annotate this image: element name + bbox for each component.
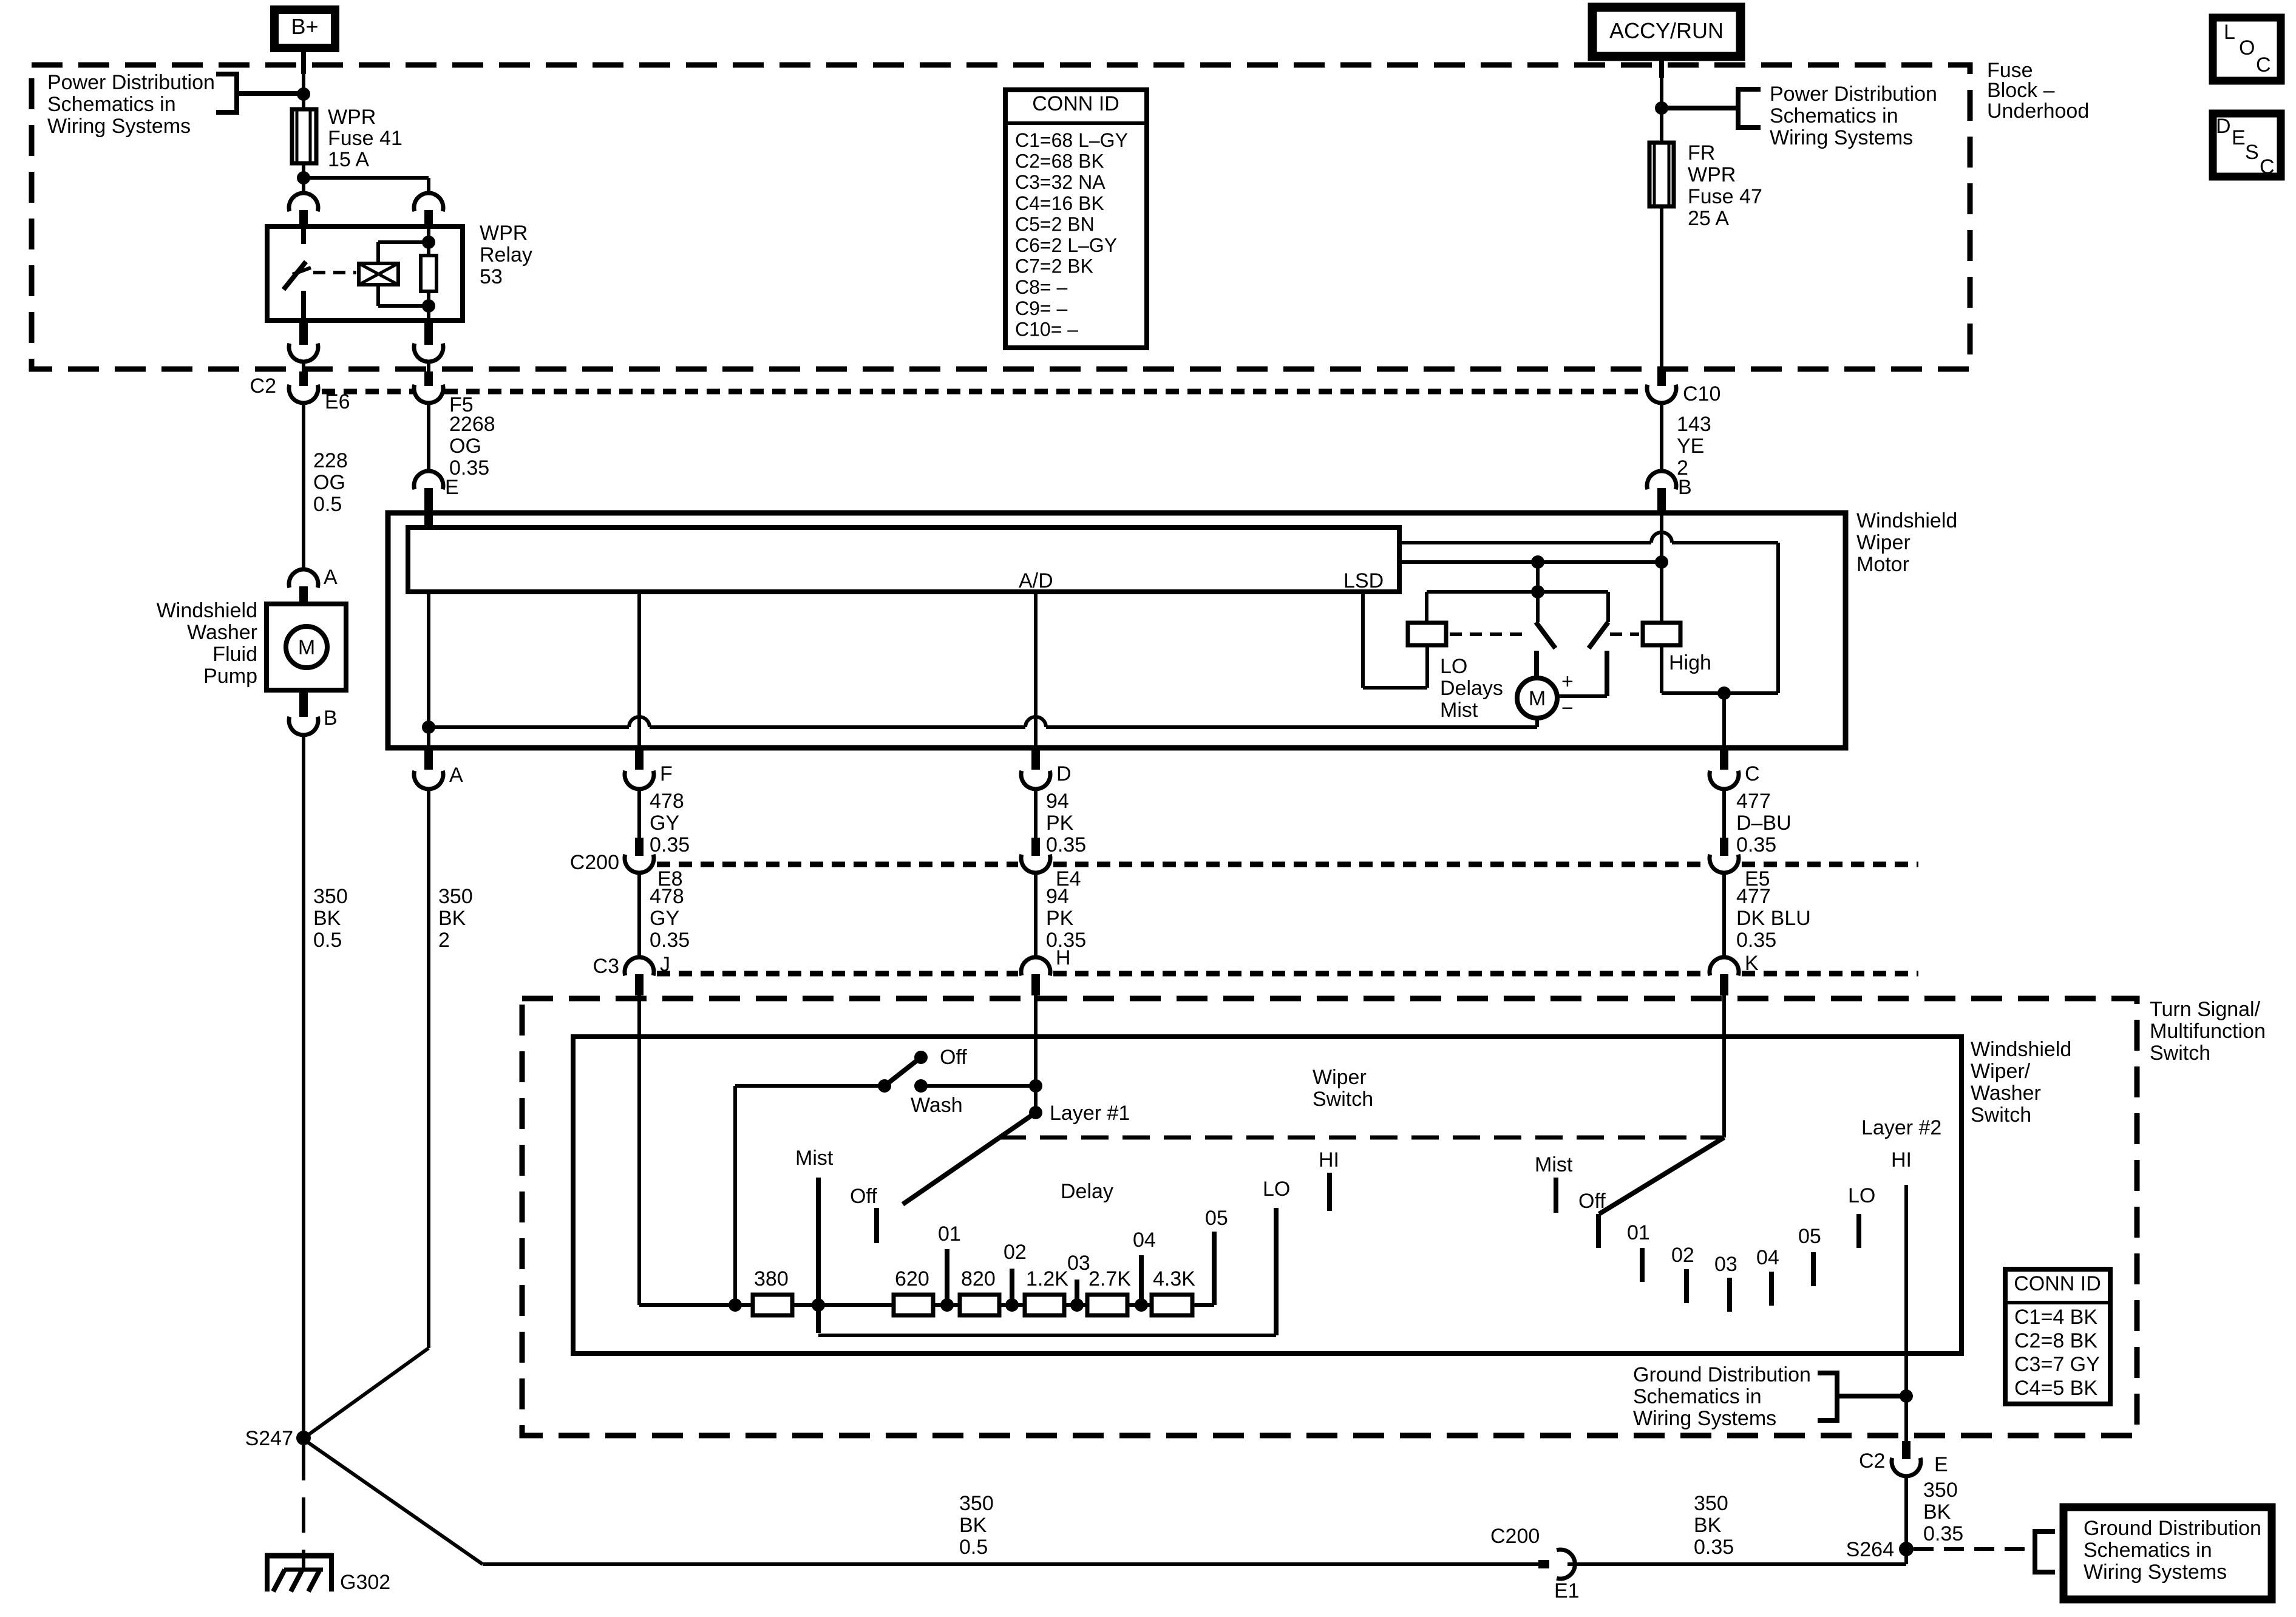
svg-text:E1: E1: [1554, 1579, 1580, 1602]
wire K into switch: [1722, 995, 1726, 1137]
svg-text:GY: GY: [650, 812, 679, 835]
svg-text:0.35: 0.35: [1046, 833, 1086, 856]
svg-text:Pump: Pump: [203, 665, 257, 688]
wire1 bar to high-box right side (hops B wire): [1399, 541, 1651, 544]
svg-text:S247: S247: [245, 1427, 293, 1450]
mechanical dashed link motor relays: [1450, 632, 1527, 636]
connector C2 pin F5: [424, 371, 433, 386]
wiper switch layer2 blade: [1599, 1137, 1724, 1214]
wire dashed S264 to ground distribution: [1914, 1547, 2031, 1551]
svg-text:BK: BK: [959, 1514, 987, 1537]
svg-text:D: D: [2216, 115, 2231, 138]
resistor 1.2K: [1025, 1295, 1064, 1315]
wire fuse41 to relay entry + branch to F5 side: [302, 163, 305, 193]
svg-text:BK: BK: [1694, 1514, 1722, 1537]
connector motor pin F: [635, 748, 644, 770]
turn signal multifunction switch dashed box: [522, 998, 2137, 1436]
svg-text:+: +: [1561, 670, 1574, 693]
wire D inside motor: [1034, 592, 1038, 748]
node wash junction on H wire: [1029, 1079, 1042, 1093]
svg-text:01: 01: [1627, 1221, 1650, 1244]
connector motor pin C: [1720, 748, 1728, 770]
callout power distribution schematics (right): [1662, 106, 1737, 110]
svg-text:0.5: 0.5: [313, 493, 342, 516]
svg-text:S264: S264: [1846, 1538, 1894, 1561]
svg-text:2: 2: [438, 929, 450, 952]
connector pump pin A: [302, 403, 305, 569]
svg-text:350: 350: [313, 885, 348, 908]
svg-text:C6=2 L–GY: C6=2 L–GY: [1015, 234, 1117, 256]
resistor 4.3K: [1152, 1295, 1192, 1315]
svg-text:BK: BK: [438, 907, 466, 930]
svg-text:M: M: [298, 636, 315, 659]
svg-text:Layer #1: Layer #1: [1050, 1102, 1130, 1125]
power feed ACCY/RUN: [1592, 7, 1741, 56]
svg-text:Wiper: Wiper: [1313, 1066, 1367, 1089]
connector C10: [1657, 368, 1666, 386]
svg-text:C2: C2: [1859, 1449, 1885, 1473]
svg-text:Delay: Delay: [1061, 1180, 1113, 1203]
svg-text:Ground Distribution: Ground Distribution: [1633, 1363, 1811, 1386]
windshield wiper washer switch box: [573, 1037, 1961, 1354]
svg-text:Block –: Block –: [1987, 79, 2055, 102]
svg-text:A: A: [324, 566, 338, 589]
ground G302: [265, 1553, 333, 1559]
svg-text:C3=7 GY: C3=7 GY: [2014, 1353, 2100, 1376]
svg-text:A: A: [449, 764, 463, 787]
node S264 splice: [1904, 1549, 1908, 1564]
connector C3 pin J: [625, 957, 654, 975]
washer switch Off contact: [914, 1051, 928, 1064]
wire mist to LO return: [818, 1334, 1276, 1337]
svg-text:C2=8 BK: C2=8 BK: [2014, 1329, 2097, 1352]
svg-text:0.35: 0.35: [449, 456, 489, 480]
connector relay socket exit pin 1: [299, 320, 308, 345]
svg-text:Off: Off: [850, 1185, 877, 1208]
svg-text:O: O: [2239, 36, 2255, 59]
svg-text:Fuse 41: Fuse 41: [328, 127, 402, 150]
connector relay socket entry pin 1: [289, 193, 318, 211]
svg-text:620: 620: [895, 1267, 929, 1290]
svg-text:Mist: Mist: [1440, 699, 1478, 722]
svg-text:03: 03: [1067, 1252, 1090, 1275]
fuse F41 WPR 15A: [292, 109, 316, 163]
svg-text:LO: LO: [1848, 1184, 1875, 1207]
svg-text:94: 94: [1046, 790, 1069, 813]
fuse F47 FR WPR 25A: [1649, 143, 1674, 206]
svg-text:C5=2 BN: C5=2 BN: [1015, 213, 1095, 235]
svg-text:Fluid: Fluid: [212, 643, 257, 666]
svg-text:FR: FR: [1688, 141, 1715, 164]
svg-text:Multifunction: Multifunction: [2150, 1020, 2266, 1043]
svg-text:Off: Off: [940, 1046, 967, 1069]
contact stubs to motor M: [1534, 651, 1539, 679]
svg-text:0.35: 0.35: [650, 929, 690, 952]
LOC reference box: [2213, 18, 2281, 81]
svg-text:Fuse 47: Fuse 47: [1688, 185, 1762, 208]
svg-text:0.5: 0.5: [959, 1536, 988, 1559]
resistor ladder feed wire: [639, 1303, 753, 1307]
wire A inside motor: [427, 592, 430, 748]
wire B+ down to fuse 41: [301, 48, 306, 74]
svg-text:B+: B+: [291, 14, 318, 39]
connector pump pin B: [299, 690, 308, 717]
svg-text:LSD: LSD: [1343, 569, 1384, 592]
svg-text:D: D: [1056, 762, 1072, 785]
svg-text:03: 03: [1714, 1253, 1737, 1276]
svg-text:1.2K: 1.2K: [1026, 1267, 1068, 1290]
connector C200 pin E8: [635, 838, 644, 856]
relay WPR 53 box: [267, 226, 463, 320]
connector row dotted line C2/C10: [322, 389, 413, 395]
svg-text:Mist: Mist: [795, 1147, 834, 1170]
motor internal module bar A/D LSD: [408, 527, 1399, 592]
svg-text:2.7K: 2.7K: [1089, 1267, 1131, 1290]
svg-text:Underhood: Underhood: [1987, 100, 2089, 123]
wires E8 E4 E5 down to C3 row: [637, 873, 641, 957]
power feed B+: [274, 10, 335, 48]
svg-text:WPR: WPR: [1688, 163, 1736, 186]
fuse block underhood dashed box: [32, 65, 1970, 369]
svg-text:228: 228: [313, 449, 348, 472]
internal wire motor common (hops F and D): [429, 725, 629, 729]
wire ACCY/RUN down to fuse 47: [1659, 56, 1664, 78]
svg-text:0.35: 0.35: [1694, 1536, 1734, 1559]
svg-text:0.5: 0.5: [313, 929, 342, 952]
svg-text:D–BU: D–BU: [1736, 812, 1792, 835]
svg-text:05: 05: [1798, 1225, 1821, 1248]
DESC reference box: [2213, 114, 2281, 177]
svg-text:0.35: 0.35: [650, 833, 690, 856]
wire F inside motor: [637, 592, 641, 748]
svg-text:820: 820: [961, 1267, 996, 1290]
switch blade right (High): [1589, 622, 1608, 648]
wire fuse47 down to C10: [1660, 206, 1663, 368]
svg-text:350: 350: [959, 1492, 994, 1515]
windshield wiper motor box: [388, 513, 1846, 748]
svg-text:M: M: [1529, 687, 1546, 710]
svg-text:Schematics in: Schematics in: [47, 93, 176, 116]
svg-text:H: H: [1056, 946, 1071, 969]
svg-text:C3=32 NA: C3=32 NA: [1015, 171, 1106, 193]
node layer1 pivot: [1029, 1106, 1042, 1119]
svg-text:Relay: Relay: [480, 243, 532, 266]
connector C200 pin E4: [1031, 838, 1040, 856]
relay coil LO delays mist: [1408, 623, 1446, 645]
connector row dotted line C200: [657, 862, 1018, 867]
wire C from High box bottom: [1662, 691, 1778, 695]
svg-text:478: 478: [650, 885, 684, 908]
svg-text:C: C: [1745, 762, 1760, 785]
svg-text:C2: C2: [250, 375, 276, 398]
connector motor pin B: [1647, 471, 1676, 489]
svg-text:Wiper/: Wiper/: [1971, 1060, 2031, 1083]
svg-text:Power Distribution: Power Distribution: [47, 71, 215, 94]
svg-text:−: −: [1561, 697, 1574, 720]
svg-text:LO: LO: [1440, 655, 1467, 678]
svg-text:04: 04: [1756, 1246, 1779, 1269]
svg-text:Wiring Systems: Wiring Systems: [1770, 126, 1913, 149]
svg-text:Wiring Systems: Wiring Systems: [1633, 1407, 1776, 1430]
svg-text:05: 05: [1205, 1207, 1228, 1230]
connector C200 pin E5: [1720, 838, 1728, 856]
wiper switch layer1 blade: [903, 1113, 1036, 1204]
svg-text:Wiring Systems: Wiring Systems: [2084, 1561, 2227, 1584]
wire 350BK2 bend to S247: [305, 1348, 429, 1437]
svg-text:E: E: [1934, 1453, 1948, 1476]
svg-text:S: S: [2245, 141, 2259, 164]
svg-text:Switch: Switch: [1971, 1103, 2031, 1127]
wire wash line to left rail: [735, 1084, 885, 1088]
svg-text:PK: PK: [1046, 907, 1074, 930]
svg-text:DK BLU: DK BLU: [1736, 907, 1811, 930]
wire S247 to ground run: [304, 1440, 483, 1564]
resistor 820: [960, 1295, 999, 1315]
svg-text:BK: BK: [1923, 1500, 1951, 1524]
svg-text:WPR: WPR: [328, 106, 376, 129]
svg-text:OG: OG: [449, 435, 481, 458]
svg-text:C9= –: C9= –: [1015, 297, 1067, 319]
svg-text:94: 94: [1046, 885, 1069, 908]
wire B vertical inside motor: [1660, 515, 1663, 562]
relay coil (crossed box): [359, 263, 398, 285]
connector C3 pin K: [1710, 957, 1739, 975]
svg-text:C8= –: C8= –: [1015, 276, 1067, 298]
svg-text:C200: C200: [1490, 1525, 1540, 1548]
node ground distribution tap: [1900, 1389, 1913, 1403]
svg-text:A/D: A/D: [1019, 569, 1053, 592]
connector relay socket entry pin 2: [414, 193, 443, 211]
svg-text:C2=68 BK: C2=68 BK: [1015, 151, 1104, 172]
svg-text:Washer: Washer: [187, 621, 257, 644]
svg-text:E6: E6: [325, 390, 350, 413]
svg-text:477: 477: [1736, 885, 1771, 908]
connector motor pin D: [1031, 748, 1040, 770]
svg-text:F: F: [660, 762, 673, 785]
windshield washer fluid pump box: [267, 604, 346, 690]
svg-text:HI: HI: [1891, 1148, 1912, 1171]
svg-text:2268: 2268: [449, 413, 495, 436]
svg-text:Motor: Motor: [1856, 553, 1909, 576]
svg-text:Mist: Mist: [1535, 1153, 1573, 1176]
wire dashed S247 to G302: [302, 1445, 305, 1553]
resistor 620: [894, 1295, 933, 1315]
layer separation dashed line: [999, 1136, 1722, 1140]
svg-text:Power Distribution: Power Distribution: [1770, 83, 1937, 106]
svg-text:0.35: 0.35: [1736, 833, 1776, 856]
connector motor pin A: [424, 748, 433, 770]
relay resistor (vertical): [427, 226, 430, 256]
resistor 2.7K: [1087, 1295, 1127, 1315]
connector C3 pin H: [1021, 957, 1050, 975]
node power distribution tap (right): [1655, 101, 1668, 115]
svg-text:01: 01: [938, 1222, 961, 1246]
svg-text:Switch: Switch: [2150, 1042, 2210, 1065]
connector C2 pin E (column switch ground): [1902, 1441, 1911, 1459]
svg-text:C4=16 BK: C4=16 BK: [1015, 192, 1104, 214]
relay switch contact: [301, 226, 306, 244]
svg-text:Turn Signal/: Turn Signal/: [2150, 998, 2261, 1021]
svg-text:143: 143: [1677, 413, 1711, 436]
node power distribution tap (left): [297, 87, 310, 101]
svg-text:BK: BK: [313, 907, 341, 930]
svg-text:C1=68 L–GY: C1=68 L–GY: [1015, 129, 1128, 151]
svg-text:Delays: Delays: [1440, 677, 1503, 700]
relay coil High: [1643, 623, 1680, 645]
node relay coil bottom junction: [422, 299, 435, 313]
svg-text:C3: C3: [593, 955, 619, 978]
svg-text:HI: HI: [1319, 1148, 1339, 1171]
svg-text:25 A: 25 A: [1688, 207, 1729, 230]
wire H into switch: [1034, 995, 1038, 1113]
svg-text:C4=5 BK: C4=5 BK: [2014, 1377, 2097, 1400]
svg-text:04: 04: [1133, 1229, 1156, 1252]
svg-text:53: 53: [480, 265, 503, 288]
ground distribution schematics box: [2063, 1507, 2272, 1599]
svg-text:High: High: [1669, 651, 1711, 674]
svg-text:0.35: 0.35: [1923, 1522, 1963, 1545]
svg-text:K: K: [1745, 952, 1759, 975]
motor M symbol: [1517, 678, 1557, 718]
svg-text:OG: OG: [313, 471, 345, 494]
connector C200 inline (E1): [1538, 1560, 1549, 1568]
wire bar output LSD loop: [1361, 592, 1365, 688]
svg-text:LO: LO: [1263, 1178, 1290, 1201]
washer switch blade: [885, 1057, 921, 1086]
svg-text:Schematics in: Schematics in: [1633, 1385, 1762, 1408]
CONN ID table (switch): [2005, 1269, 2110, 1404]
svg-text:477: 477: [1736, 790, 1771, 813]
svg-text:C: C: [2256, 53, 2271, 76]
connector motor pin E: [427, 403, 430, 471]
svg-text:CONN ID: CONN ID: [2014, 1272, 2101, 1295]
svg-text:C10= –: C10= –: [1015, 318, 1078, 340]
connector row dotted line C3: [657, 971, 1018, 977]
svg-text:Windshield: Windshield: [157, 599, 257, 622]
relay mechanical dashed link: [313, 271, 356, 274]
svg-text:G302: G302: [340, 1571, 390, 1594]
svg-text:C: C: [2260, 155, 2275, 178]
svg-text:350: 350: [1694, 1492, 1728, 1515]
svg-text:02: 02: [1671, 1244, 1694, 1267]
svg-text:C10: C10: [1683, 382, 1720, 405]
node S247 splice: [296, 1431, 311, 1445]
svg-text:C1=4 BK: C1=4 BK: [2014, 1306, 2097, 1329]
washer switch Wash contact: [914, 1079, 928, 1093]
svg-text:L: L: [2224, 21, 2235, 44]
svg-text:CONN ID: CONN ID: [1032, 92, 1119, 115]
svg-text:15 A: 15 A: [328, 148, 369, 171]
svg-text:C200: C200: [570, 851, 619, 874]
svg-text:WPR: WPR: [480, 222, 528, 245]
svg-text:Layer #2: Layer #2: [1861, 1116, 1941, 1139]
switch blade left (LO): [1536, 592, 1540, 622]
connector C2 pin E6: [299, 371, 308, 386]
svg-text:C7=2 BK: C7=2 BK: [1015, 256, 1093, 277]
svg-text:0.35: 0.35: [1736, 929, 1776, 952]
svg-text:Switch: Switch: [1313, 1088, 1373, 1111]
svg-text:Wash: Wash: [911, 1094, 963, 1117]
svg-text:478: 478: [650, 790, 684, 813]
svg-text:B: B: [1678, 476, 1692, 499]
svg-text:Off: Off: [1578, 1190, 1606, 1213]
svg-text:YE: YE: [1677, 435, 1704, 458]
pump motor M symbol: [286, 626, 327, 668]
resistor 380: [753, 1295, 792, 1315]
connector relay socket exit pin 2: [424, 320, 433, 345]
svg-text:E: E: [2232, 126, 2246, 149]
svg-text:GY: GY: [650, 907, 679, 930]
wire J into switch: [637, 995, 641, 1305]
svg-text:B: B: [324, 707, 338, 730]
svg-text:4.3K: 4.3K: [1153, 1267, 1195, 1290]
node relay coil top junction: [422, 236, 435, 249]
svg-text:ACCY/RUN: ACCY/RUN: [1609, 18, 1724, 43]
wire HI down to S264: [1904, 1185, 1908, 1449]
wire2 bar to B wire: [1399, 560, 1662, 564]
svg-text:Schematics in: Schematics in: [2084, 1539, 2212, 1562]
wire LO switch feed: [1536, 562, 1540, 592]
CONN ID table (fuse block): [1005, 90, 1147, 348]
svg-text:Wiper: Wiper: [1856, 531, 1911, 554]
svg-text:Wiring Systems: Wiring Systems: [47, 115, 191, 138]
svg-text:Schematics in: Schematics in: [1770, 104, 1898, 127]
svg-text:350: 350: [1923, 1479, 1958, 1502]
svg-text:Ground Distribution: Ground Distribution: [2084, 1517, 2261, 1540]
svg-text:380: 380: [754, 1267, 789, 1290]
wires F D C down to C200 row: [637, 789, 641, 838]
svg-text:Windshield: Windshield: [1856, 509, 1957, 532]
svg-text:350: 350: [438, 885, 473, 908]
svg-text:02: 02: [1004, 1241, 1027, 1264]
svg-text:Windshield: Windshield: [1971, 1038, 2071, 1061]
svg-text:J: J: [660, 953, 670, 976]
svg-text:PK: PK: [1046, 812, 1074, 835]
svg-text:Washer: Washer: [1971, 1082, 2041, 1105]
